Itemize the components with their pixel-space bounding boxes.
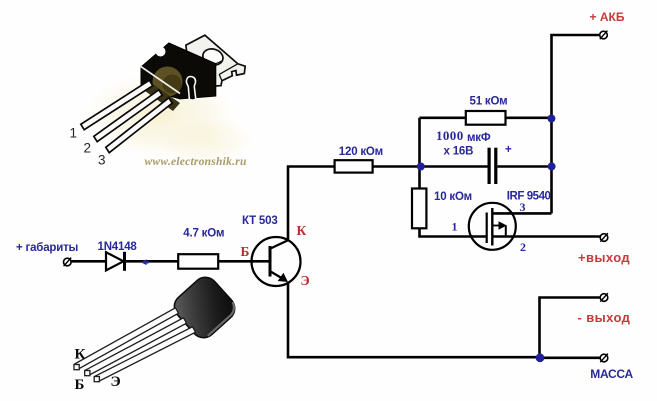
svg-text:- выход: - выход	[578, 310, 631, 325]
svg-text:10 кОм: 10 кОм	[434, 191, 472, 203]
MOSFET IRF9540	[469, 203, 516, 250]
terminal -vyhod	[600, 293, 608, 302]
svg-text:1000: 1000	[436, 128, 464, 143]
TO-220 package photo	[70, 35, 261, 168]
resistor 10 kOm	[412, 189, 426, 229]
wire: left rail top to 51k	[420, 117, 466, 120]
label E red	[301, 273, 310, 288]
terminal +vyhod	[600, 233, 608, 242]
label IRF 9540	[507, 190, 551, 202]
label 51 kOm	[470, 96, 508, 108]
label + gabarity	[16, 242, 79, 254]
wire: emitter down and bottom rail	[288, 283, 540, 358]
wire: gabarity terminal to diode	[72, 260, 106, 263]
metal tab	[186, 35, 245, 87]
label 1N4148	[98, 241, 138, 253]
label K red	[297, 223, 307, 238]
svg-text:К: К	[75, 347, 86, 363]
wire: mosfet source to +vyhod	[492, 235, 600, 238]
wire: right rail vertical	[552, 35, 600, 213]
terminal MASSA	[600, 354, 608, 363]
black body	[141, 43, 216, 99]
terminal + gabarity	[64, 258, 72, 267]
leads	[81, 80, 172, 152]
TO-92 package photo	[74, 272, 240, 393]
svg-text:+ АКБ: + АКБ	[590, 10, 625, 24]
svg-text:2: 2	[84, 141, 92, 156]
svg-text:К: К	[297, 223, 307, 238]
svg-text:120 кОм: 120 кОм	[339, 146, 383, 158]
pin 2 label	[520, 240, 526, 254]
terminal + AKB	[600, 31, 608, 40]
wire: diode to resistor	[126, 260, 178, 263]
svg-text:www.electronshik.ru: www.electronshik.ru	[145, 156, 247, 168]
node: cap / rail junction	[548, 162, 556, 170]
svg-text:1N4148: 1N4148	[98, 241, 138, 253]
label 4.7 kOm	[183, 228, 224, 240]
resistor 51 kOm	[466, 111, 506, 125]
label 120 kOm	[339, 146, 383, 158]
wire: mosfet drain lead	[492, 212, 551, 215]
transistor KT503	[252, 237, 301, 286]
label 10 kOm	[434, 191, 472, 203]
svg-text:3: 3	[520, 200, 526, 214]
label -vyhod	[578, 310, 631, 325]
wire: 120k to cap left	[373, 165, 488, 168]
wire: collector up to 120k	[288, 167, 335, 241]
node: 120k / 10k junction	[417, 163, 425, 171]
wire: 10k bottom to gate	[420, 228, 487, 236]
svg-text:1: 1	[70, 126, 78, 141]
wire: 51k to right rail	[506, 117, 552, 120]
svg-text:+: +	[505, 144, 512, 156]
label MASSA	[590, 367, 633, 381]
leads	[74, 308, 196, 382]
label KT 503	[242, 215, 278, 227]
label +vyhod	[578, 250, 630, 265]
svg-text:IRF 9540: IRF 9540	[507, 190, 551, 202]
svg-text:Э: Э	[301, 273, 310, 288]
keyhole highlight	[186, 76, 195, 100]
svg-text:МАССА: МАССА	[590, 367, 633, 381]
schematic wires and parts	[72, 35, 601, 358]
label 1000 mkF	[436, 128, 491, 157]
svg-text:+выход: +выход	[578, 250, 630, 265]
svg-text:Б: Б	[75, 377, 85, 393]
pin 1 label	[452, 220, 458, 234]
svg-text:2: 2	[520, 240, 526, 254]
node: massa junction	[536, 353, 545, 362]
wire: left rail vertical	[418, 118, 421, 189]
svg-text:КТ 503: КТ 503	[242, 215, 278, 227]
resistor 4.7 kOm	[178, 254, 218, 269]
svg-text:51 кОм: 51 кОм	[470, 96, 508, 108]
wire: -vyhod branch	[540, 298, 601, 358]
wire: cap right to right rail	[498, 165, 552, 168]
label B red	[241, 244, 250, 259]
svg-text:х 16В: х 16В	[444, 146, 474, 158]
wire: resistor to base	[218, 260, 270, 263]
svg-text:1: 1	[452, 220, 458, 234]
svg-text:Б: Б	[241, 244, 250, 259]
diode VD1 1N4148	[106, 252, 126, 271]
wire: massa	[540, 356, 600, 359]
resistor 120 kOm	[335, 160, 373, 172]
pin 3 label	[520, 200, 526, 214]
svg-text:Э: Э	[111, 374, 121, 390]
svg-text:мкФ: мкФ	[467, 132, 491, 144]
blue mark on wire	[141, 259, 149, 265]
body notch	[156, 47, 166, 57]
label + AKB	[590, 10, 625, 24]
svg-text:4.7 кОм: 4.7 кОм	[183, 228, 224, 240]
svg-text:+ габариты: + габариты	[16, 242, 79, 254]
body edge highlight	[140, 66, 180, 94]
capacitor 1000uF	[488, 148, 498, 184]
svg-text:3: 3	[98, 152, 106, 167]
node: 51k / rail junction	[547, 115, 555, 123]
label cap plus	[505, 144, 512, 156]
